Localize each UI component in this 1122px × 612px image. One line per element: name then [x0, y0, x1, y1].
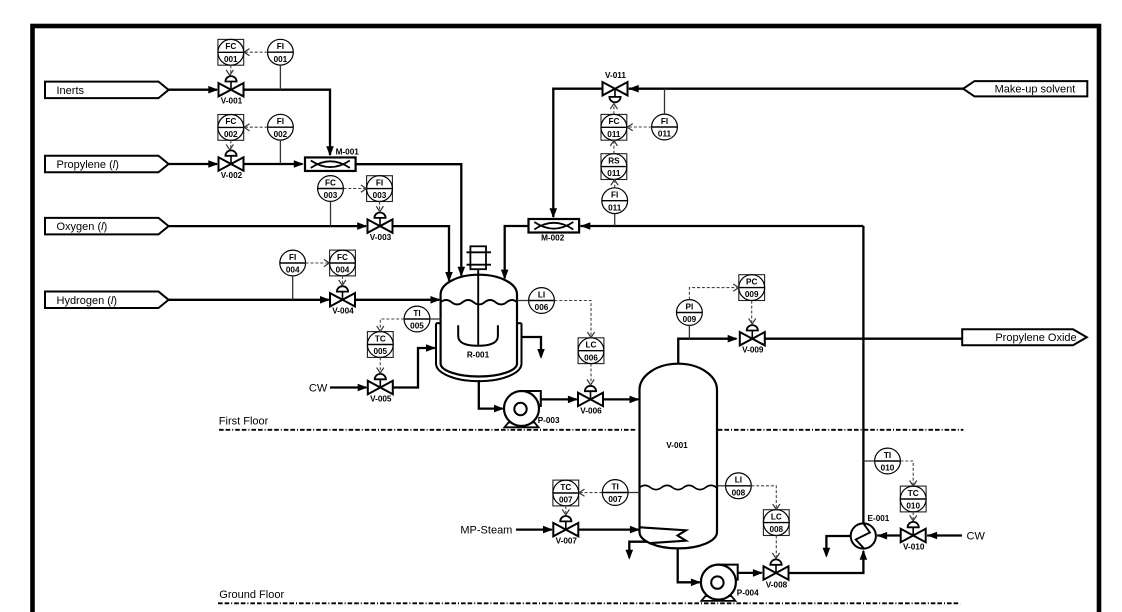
svg-text:008: 008	[732, 488, 746, 497]
column V-001 liquid level	[640, 485, 717, 489]
wire V-005 to reactor jacket	[393, 348, 435, 388]
wire P-004 discharge to V-008	[738, 572, 762, 574]
tap TI-010 to recycle line	[863, 460, 874, 462]
instrument FC-002	[218, 115, 244, 141]
wire M-001 to reactor R-001	[356, 164, 462, 275]
First Floor line (right of column)	[718, 429, 964, 431]
tap PI-009 to product line	[688, 325, 690, 338]
svg-text:TC: TC	[560, 483, 571, 492]
tap FI-011b to M-002 line	[614, 214, 616, 226]
wire V-011 to M-002	[553, 89, 602, 217]
control valve V-007	[553, 516, 578, 536]
instrument RS-011	[601, 154, 627, 180]
svg-text:V-004: V-004	[332, 307, 354, 316]
svg-text:FI: FI	[277, 42, 284, 51]
svg-text:RS: RS	[608, 156, 620, 165]
wire reactor bottom to P-003	[479, 380, 503, 409]
svg-text:011: 011	[607, 169, 621, 178]
wire V-009 to Propylene Oxide	[766, 338, 963, 340]
wire Inerts feed to V-001	[169, 89, 217, 91]
signal LC-006 to V-006	[590, 364, 592, 384]
svg-text:009: 009	[745, 290, 759, 299]
svg-text:V-008: V-008	[766, 581, 788, 590]
svg-text:006: 006	[584, 353, 598, 362]
instrument FI-002	[268, 114, 294, 140]
static mixer M-002	[529, 219, 580, 233]
instrument TC-007	[553, 480, 579, 506]
signal PI-009 to PC-009	[689, 288, 737, 300]
svg-text:011: 011	[608, 203, 622, 212]
svg-text:LC: LC	[586, 341, 597, 350]
wire CW to V-010	[927, 534, 962, 536]
svg-text:CW: CW	[309, 383, 328, 395]
instrument LC-006	[578, 338, 604, 364]
signal FI-002 to FC-002	[245, 126, 268, 128]
svg-text:005: 005	[373, 347, 387, 356]
svg-text:FC: FC	[225, 42, 236, 51]
tap TI-007 to column	[628, 492, 639, 494]
reactor R-001 liquid level	[441, 300, 517, 304]
svg-text:FI: FI	[611, 191, 618, 200]
wire jacket CW outlet	[522, 337, 542, 357]
svg-text:002: 002	[274, 130, 288, 139]
instrument FI-011b	[602, 188, 628, 214]
wire V-007 to column reboiler return	[579, 528, 639, 530]
instrument TI-010	[875, 448, 901, 474]
stream label Propylene Oxide	[962, 329, 1087, 345]
instrument PC-009	[739, 275, 765, 301]
stream label Oxygen (l)	[45, 218, 169, 235]
svg-text:First Floor: First Floor	[219, 415, 269, 427]
svg-text:Propylene Oxide: Propylene Oxide	[995, 332, 1076, 344]
svg-text:R-001: R-001	[467, 351, 490, 360]
wire CW to V-005	[330, 386, 367, 388]
svg-text:010: 010	[906, 502, 920, 511]
instrument TI-005	[404, 306, 430, 332]
control valve V-006	[578, 386, 603, 406]
svg-text:V-011: V-011	[605, 71, 626, 80]
svg-text:P-003: P-003	[538, 416, 560, 425]
tap FI-002 to Propylene line	[279, 140, 281, 164]
signal LC-008 to V-008	[775, 536, 777, 557]
wire V-004 to reactor R-001	[355, 299, 439, 301]
instrument FI-011a	[652, 114, 678, 140]
svg-text:007: 007	[608, 495, 622, 504]
svg-text:V-009: V-009	[742, 346, 764, 355]
reactor R-001 jacket	[436, 323, 522, 381]
instrument TC-010	[900, 486, 926, 512]
control valve V-004	[330, 286, 355, 306]
svg-text:Propylene (l): Propylene (l)	[57, 159, 119, 171]
svg-text:Ground Floor: Ground Floor	[219, 589, 284, 601]
centrifugal pump P-004	[701, 565, 738, 601]
svg-text:V-007: V-007	[556, 537, 578, 546]
svg-text:V-010: V-010	[903, 543, 925, 552]
svg-text:TI: TI	[612, 482, 619, 491]
signal FI-003 to V-003	[379, 202, 381, 211]
First Floor line (left of column)	[219, 429, 637, 431]
svg-text:007: 007	[559, 496, 573, 505]
tap FI-011a to Make-up solvent line	[664, 89, 666, 114]
wire column overhead to V-009	[678, 339, 736, 364]
tap FC-003 to Oxygen line	[330, 201, 332, 226]
reactor R-001 vessel	[441, 275, 517, 377]
svg-text:FC: FC	[608, 117, 619, 126]
svg-text:003: 003	[324, 191, 338, 200]
instrument FI-004	[280, 250, 306, 276]
Ground Floor line	[218, 602, 960, 604]
svg-text:Hydrogen (l): Hydrogen (l)	[57, 295, 118, 307]
instrument FI-003	[367, 176, 393, 202]
svg-text:FI: FI	[277, 117, 284, 126]
svg-text:Inerts: Inerts	[57, 85, 85, 97]
tap FI-001 to Inerts line	[279, 65, 281, 90]
signal FC-003 to FI-003	[343, 188, 365, 190]
svg-text:009: 009	[683, 315, 697, 324]
svg-text:FC: FC	[337, 253, 348, 262]
wire recycle to M-002	[580, 225, 863, 227]
svg-text:V-006: V-006	[580, 406, 602, 415]
signal PC-009 to V-009	[751, 301, 753, 323]
signal RS-011 to FC-011	[613, 142, 615, 154]
wire V-001 to M-001	[244, 90, 331, 155]
svg-text:TI: TI	[884, 451, 891, 460]
svg-text:004: 004	[336, 266, 350, 275]
reactor R-001 agitator motor	[467, 246, 492, 269]
signal FC-001 to V-001	[230, 65, 232, 74]
svg-text:011: 011	[607, 130, 621, 139]
signal TI-010 to TC-010	[900, 461, 913, 485]
svg-text:Make-up solvent: Make-up solvent	[995, 84, 1076, 96]
svg-text:PC: PC	[746, 277, 757, 286]
stream label Inerts	[45, 82, 169, 99]
heat exchanger E-001	[851, 523, 876, 548]
instrument TI-007	[602, 480, 628, 506]
signal TC-010 to V-010	[912, 512, 914, 519]
svg-text:LC: LC	[771, 512, 782, 521]
svg-text:V-001: V-001	[221, 97, 243, 106]
svg-text:M-001: M-001	[336, 148, 360, 157]
centrifugal pump P-003	[504, 391, 541, 427]
svg-text:TI: TI	[413, 309, 420, 318]
svg-text:V-003: V-003	[370, 233, 392, 242]
static mixer M-001	[305, 157, 356, 171]
instrument LI-006	[529, 288, 555, 314]
wire column bottoms purge	[629, 542, 647, 558]
signal FI-011a to FC-011	[628, 126, 651, 128]
stream label Hydrogen (l)	[45, 292, 169, 309]
wire recycle riser E-001 to M-002 line	[862, 226, 864, 523]
svg-text:006: 006	[535, 303, 549, 312]
control valve V-008	[764, 559, 789, 579]
wire Oxygen feed to V-003	[169, 225, 366, 227]
svg-text:FC: FC	[225, 117, 236, 126]
svg-text:FI: FI	[661, 117, 668, 126]
tap LI-008 to column	[717, 485, 726, 487]
svg-text:M-002: M-002	[541, 233, 565, 242]
svg-text:003: 003	[373, 191, 387, 200]
svg-text:002: 002	[224, 130, 238, 139]
reactor R-001 agitator impeller	[458, 325, 498, 346]
svg-text:LI: LI	[735, 476, 742, 485]
svg-text:TC: TC	[908, 489, 919, 498]
instrument TC-005	[367, 332, 393, 358]
signal LI-008 to LC-008	[751, 486, 776, 508]
svg-text:TC: TC	[375, 334, 386, 343]
wire Hydrogen feed to V-004	[169, 299, 329, 301]
stream label Make-up solvent	[963, 81, 1087, 96]
svg-text:E-001: E-001	[868, 514, 890, 523]
svg-text:004: 004	[286, 266, 300, 275]
instrument FC-003	[318, 176, 344, 202]
wire M-002 to reactor R-001	[505, 226, 529, 278]
reactor R-001 agitator shaft	[477, 269, 479, 346]
wire E-001 CW outlet	[826, 536, 850, 556]
svg-text:P-004: P-004	[737, 588, 759, 597]
wire V-006 to column V-001	[603, 398, 638, 400]
wire V-002 to M-001	[244, 163, 303, 165]
control valve V-005	[368, 374, 393, 394]
signal FI-001 to FC-001	[245, 51, 268, 53]
signal TI-007 to TC-007	[580, 492, 602, 494]
control valve V-010	[901, 522, 926, 542]
wire V-003 to reactor R-001	[393, 226, 449, 281]
instrument FC-011	[601, 114, 627, 140]
instrument LC-008	[763, 510, 789, 536]
svg-text:LI: LI	[538, 290, 545, 299]
control valve V-002	[219, 150, 244, 170]
tap FI-004 to Hydrogen line	[292, 276, 294, 300]
svg-text:Oxygen (l): Oxygen (l)	[57, 221, 108, 233]
svg-text:001: 001	[224, 55, 238, 64]
tap TI-005 to reactor	[430, 318, 441, 320]
column V-001 reboiler-return sparger	[640, 527, 686, 543]
svg-text:008: 008	[769, 525, 783, 534]
signal FC-002 to V-002	[230, 140, 232, 148]
wire V-008 to E-001	[789, 551, 863, 573]
signal TC-007 to V-007	[565, 506, 567, 513]
column V-001 shell	[640, 364, 718, 549]
svg-text:CW: CW	[967, 531, 986, 543]
svg-text:V-001: V-001	[666, 441, 688, 450]
wire Propylene feed to V-002	[169, 163, 217, 165]
control valve V-011	[603, 82, 628, 102]
signal TC-005 to V-005	[379, 357, 381, 371]
instrument FI-001	[268, 39, 294, 65]
svg-text:005: 005	[410, 322, 424, 331]
control valve V-003	[368, 213, 393, 233]
signal TI-005 to TC-005	[380, 319, 404, 330]
svg-text:FC: FC	[325, 178, 336, 187]
wire Make-up solvent to V-011	[629, 88, 963, 90]
svg-text:MP-Steam: MP-Steam	[460, 525, 512, 537]
signal LI-006 to LC-006	[554, 301, 591, 337]
signal FC-004 to V-004	[342, 276, 344, 284]
signal FC-011 to V-011	[613, 105, 615, 114]
wire MP-Steam to V-007	[516, 528, 552, 530]
svg-text:010: 010	[881, 464, 895, 473]
wire column bottom to P-004	[678, 548, 700, 582]
svg-text:001: 001	[274, 55, 288, 64]
stream label Propylene (l)	[45, 156, 169, 173]
tap LI-006 to reactor	[517, 300, 529, 302]
instrument FC-001	[218, 39, 244, 65]
wire V-010 to E-001	[877, 534, 901, 536]
instrument LI-008	[726, 473, 752, 499]
svg-text:V-002: V-002	[221, 171, 243, 180]
signal FI-011b to RS-011	[614, 181, 616, 188]
wire P-003 discharge to V-006	[541, 398, 577, 400]
svg-text:PI: PI	[686, 302, 694, 311]
svg-text:FI: FI	[376, 178, 383, 187]
signal FI-004 to FC-004	[306, 262, 329, 264]
svg-text:FI: FI	[289, 253, 296, 262]
svg-text:V-005: V-005	[370, 394, 392, 403]
instrument PI-009	[677, 300, 703, 326]
control valve V-009	[740, 325, 765, 345]
svg-text:011: 011	[658, 130, 672, 139]
control valve V-001	[219, 76, 244, 96]
instrument FC-004	[330, 250, 356, 276]
